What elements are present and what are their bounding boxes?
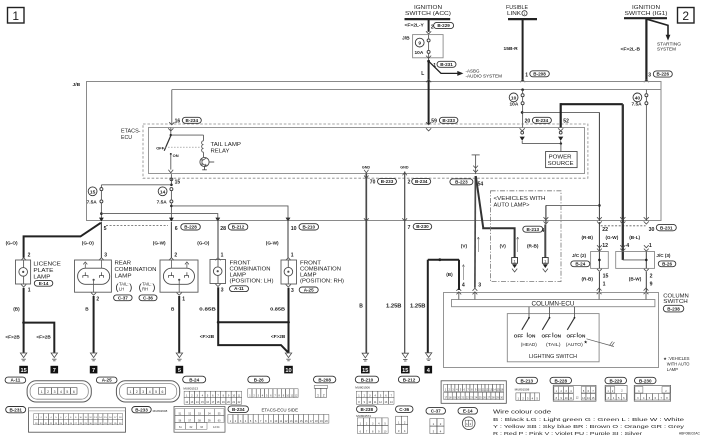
svg-text:3: 3 [142,390,144,394]
connector B-233 drawing [132,407,225,433]
svg-text:(B): (B) [446,272,453,277]
wire (V) to column switch pin 3 [474,176,477,288]
svg-text:(R-B): (R-B) [527,244,539,249]
inline connector terminal (V) [512,258,518,273]
svg-text:9: 9 [418,41,421,47]
wire <F>2L-B IG1 to J/B [645,18,647,81]
svg-text:B-238: B-238 [667,307,680,312]
junction connector J/C(3) B-26 [616,252,676,269]
connector B-229 drawing [605,377,627,401]
column switch box B-238 [444,293,690,368]
svg-text:LIGHTING SWITCH: LIGHTING SWITCH [529,354,577,360]
connector E-14 drawing [458,408,478,430]
connector C-37 drawing [426,408,446,434]
wire L from fuse 9 down into J/B [428,61,430,81]
svg-text:70: 70 [370,180,376,186]
junction block J/B outline [73,82,662,221]
connector B-234 drawing [228,406,329,423]
svg-text:Y : Yellow SB : Sky blue: Y : Yellow SB : Sky blue BR : Brown O : … [493,424,685,430]
svg-text:12 04: 12 04 [213,425,220,429]
svg-text:LAMP: LAMP [33,274,50,280]
svg-text:1: 1 [524,12,526,16]
pin 54 connector B-223 [450,179,483,188]
svg-text:TAIL LAMP: TAIL LAMP [211,142,242,148]
branch arrow to starting system [647,19,681,51]
svg-text:40: 40 [635,95,641,101]
svg-text:WITH AUTO: WITH AUTO [667,362,690,367]
fuse 14 7.5A [170,188,173,191]
svg-text:7.5A: 7.5A [87,200,98,206]
node: ACC fused output junction [427,60,430,63]
svg-text:7: 7 [408,225,411,231]
svg-text:J/C (2): J/C (2) [572,253,587,258]
node: fuse 10 output [521,105,524,128]
svg-text:30: 30 [649,227,655,233]
svg-text:C-36: C-36 [143,295,153,300]
svg-text:<VEHICLES WITH: <VEHICLES WITH [494,196,546,202]
svg-text:4: 4 [60,390,62,394]
svg-text:ECU: ECU [121,135,132,141]
svg-text:9: 9 [650,282,653,288]
svg-text:POWER: POWER [549,154,572,160]
svg-text:1: 1 [525,72,528,78]
svg-text:B-210: B-210 [361,377,374,382]
svg-text:7.5A: 7.5A [632,101,643,107]
svg-text:B-24: B-24 [575,261,585,266]
svg-text:15: 15 [362,368,368,374]
svg-text:7: 7 [92,368,95,374]
wire pin 22 to J/C(2) [582,217,609,251]
svg-text:(G-O): (G-O) [197,240,209,245]
svg-text:1: 1 [28,288,31,294]
wire 0.85B front RH ground [270,284,294,352]
tail lamp relay [156,134,203,173]
svg-text:LAMP: LAMP [115,274,132,280]
svg-text:3: 3 [104,252,107,258]
ground: ETACS body ground 15 [361,353,370,374]
fuse 10 10A [509,90,524,108]
sheet marker 2 [678,8,695,24]
svg-text:IGNITION: IGNITION [632,5,660,11]
svg-text:B-213: B-213 [520,378,533,383]
svg-text:A-11: A-11 [234,286,244,291]
wire (B) licence lamp ground [5,284,54,352]
svg-text:J/B: J/B [73,82,81,88]
svg-text:SYSTEM: SYSTEM [657,46,676,51]
svg-text:(G-W): (G-W) [266,240,279,245]
svg-text:ON: ON [578,333,586,338]
wire (G-W) to rear combination lamp RH [153,222,178,260]
svg-text:15: 15 [90,189,96,195]
J/B exit arrows lamps [99,218,290,222]
wire J/C(2) pin 15 to column switch pin 1 [582,269,609,294]
ETACS-ECU dashed outline [121,124,588,178]
svg-text:A-25: A-25 [304,287,314,292]
wire fuse10 output to auto-lamp branch [522,111,599,113]
svg-text:0.85B: 0.85B [270,306,286,312]
wire IG1 through J/B to pin 30 [645,105,647,221]
svg-text:MU801513: MU801513 [183,386,198,390]
wire 0.85B front LH ground [199,284,288,353]
connector B-228 drawing [550,377,596,401]
relay driver transistor [200,157,214,169]
svg-text:B-26: B-26 [662,261,672,266]
sheet marker 1 [8,8,25,24]
svg-text:1.25B: 1.25B [386,304,402,310]
ground 15 licence lamp [19,353,28,374]
junction connector J/C(2) B-24 [571,252,609,269]
svg-text:(G-O): (G-O) [82,240,94,245]
svg-text:22: 22 [602,227,608,233]
dashed option link 5-6 [106,224,168,226]
svg-text:B-234: B-234 [186,118,199,123]
svg-text:B-228: B-228 [554,378,567,383]
svg-text:10: 10 [511,95,517,101]
svg-text:B-229: B-229 [437,23,450,28]
svg-text:28: 28 [220,226,226,232]
svg-text:1: 1 [317,393,319,397]
wire (G-O) to rear combination lamp LH [82,222,107,260]
svg-text:6: 6 [73,390,75,394]
svg-text:15B-R: 15B-R [504,46,519,52]
svg-text:A-11: A-11 [11,378,21,383]
svg-text:ETACS-: ETACS- [121,129,141,135]
wire (G-W) power to J/C(3) pin 4 [606,104,630,251]
relay output node 15 [101,174,180,186]
svg-text:(POSITION: RH): (POSITION: RH) [300,278,344,284]
svg-text:3: 3 [478,283,481,289]
svg-text:12: 12 [602,243,608,249]
connector A-11 drawing [5,377,91,402]
svg-text:GND: GND [400,165,409,169]
svg-text:R : Red P : Pink V : Vio: R : Red P : Pink V : Violet PU : Purple … [493,431,643,435]
svg-text:B-230: B-230 [639,378,652,383]
lighting switch [507,307,614,362]
svg-text:0.85B: 0.85B [199,306,216,312]
svg-text:RH: RH [142,286,148,291]
svg-text:REAR: REAR [115,260,132,266]
svg-text:2: 2 [408,180,411,186]
svg-text:7: 7 [53,368,56,374]
svg-text:AUTO LAMP>: AUTO LAMP> [494,202,530,208]
power source feed thick wire 52 [558,103,623,144]
wire ACC switch to J/B connector [428,19,430,32]
svg-text:C-37: C-37 [118,295,128,300]
svg-text:A-25: A-25 [102,378,112,383]
connector B-210 drawing [355,376,394,404]
svg-text:7.5A: 7.5A [157,200,168,206]
svg-text:1: 1 [129,390,131,394]
svg-text:C-37: C-37 [431,409,441,414]
svg-text:2: 2 [28,252,31,258]
svg-text:(G-O): (G-O) [6,240,18,245]
ground 5 rear lamp RH [176,353,184,374]
wire (V) branch to inline connector B-213 pin 1 [476,176,519,258]
svg-text:SWITCH (ACC): SWITCH (ACC) [405,11,451,17]
svg-text:J/B: J/B [402,35,410,41]
ETACS output stub to pin 54 [472,155,480,174]
svg-text:4: 4 [149,390,151,394]
connector B-24 drawing [183,376,242,404]
wire J/C(3) pin 2 to column switch pin 9 [629,269,653,294]
svg-text:B-208: B-208 [318,377,331,382]
svg-text:(V): (V) [461,244,468,249]
svg-text:B-229: B-229 [609,378,622,383]
label rear combination lamp [114,260,157,300]
svg-text:MU801508: MU801508 [515,388,530,392]
connector B-26 drawing [248,376,298,397]
svg-text:1: 1 [649,243,652,249]
svg-text:B-26: B-26 [254,377,264,382]
connector B-230 drawing [634,377,671,401]
svg-text:(AUTO): (AUTO) [566,342,584,347]
svg-text:B-231: B-231 [660,225,673,230]
svg-text:HBF08E02AC: HBF08E02AC [679,432,701,435]
svg-text:(G-W): (G-W) [153,240,166,245]
connector B-212 drawing [398,376,506,403]
svg-text:B-234: B-234 [232,407,245,412]
svg-text:4: 4 [626,243,629,249]
svg-text:<F>2B: <F>2B [271,334,286,339]
svg-text:MU801506: MU801506 [355,386,370,390]
svg-text:B-226: B-226 [657,72,670,77]
svg-text:L: L [421,71,424,77]
ground: body ground 15 (second) [401,353,410,374]
svg-text:MU802608: MU802608 [153,409,168,413]
svg-text:15: 15 [603,274,609,280]
svg-text:10: 10 [291,226,297,232]
pin 20 connector B-234 into ETACS [520,117,552,143]
svg-text:B: B [359,304,363,310]
svg-text:54: 54 [478,181,484,187]
svg-text:B-210: B-210 [302,225,315,230]
connector B-208 drawing [314,376,336,397]
svg-text:6: 6 [162,390,164,394]
svg-text:1: 1 [221,252,224,258]
svg-text:B-24: B-24 [189,377,199,382]
svg-text:RELAY: RELAY [211,149,230,155]
connector A-25 drawing [96,377,179,402]
svg-text:2: 2 [323,393,325,397]
vehicles with auto lamp option box [491,191,561,282]
ETACS GND output 2 B-234 / 7 B-230 [386,165,432,353]
svg-text:59: 59 [431,119,437,125]
svg-text:3: 3 [648,73,651,79]
node: fuse 15 output [100,203,103,218]
svg-text:B-234: B-234 [415,179,428,184]
svg-text:2: 2 [96,297,99,303]
junction block (small) with fuse 9 [402,35,443,58]
svg-text:J/C (3): J/C (3) [656,253,671,258]
svg-text:1: 1 [12,9,19,23]
svg-text:3: 3 [54,390,56,394]
svg-text:2: 2 [47,390,49,394]
wire fuse14 to front lamp RH drop [171,206,288,218]
wire fuse15 to front lamp LH drop [101,214,217,218]
inline connector terminal (R-B) [542,258,548,273]
ignition switch (ACC) [405,5,452,19]
svg-text:B-238: B-238 [360,407,373,412]
svg-text:B-233: B-233 [135,407,148,412]
svg-text:15: 15 [175,179,181,185]
svg-text:LINK: LINK [507,11,521,17]
connector B-213 drawing [515,377,540,400]
svg-text:SOURCE: SOURCE [548,161,574,167]
svg-text:5: 5 [104,226,107,232]
svg-text:<F>2L-B: <F>2L-B [621,46,641,52]
svg-text:1: 1 [291,252,294,258]
svg-text:1: 1 [603,282,606,288]
svg-text:C-36: C-36 [399,407,409,412]
pin 6 connector B-228 [175,224,201,232]
pin 28 connector B-212 [220,224,248,232]
svg-text:E-14: E-14 [39,281,49,286]
svg-text:<F>2B: <F>2B [200,334,215,339]
svg-text:1: 1 [41,390,43,394]
dashed option link 22-30 [601,225,646,227]
svg-text:Wire colour code: Wire colour code [493,410,551,416]
power source block [546,152,578,168]
front combination lamp RH A-25 [281,260,344,293]
svg-text:(B): (B) [13,306,20,311]
svg-text:FUSIBLE: FUSIBLE [506,5,528,11]
J/B internal bus line [172,89,661,91]
svg-text:GND: GND [362,165,371,169]
svg-text:10: 10 [285,368,291,374]
svg-text:ETACS-ECU SIDE: ETACS-ECU SIDE [262,408,299,413]
svg-text:-AUDIO SYSTEM: -AUDIO SYSTEM [466,73,503,78]
svg-text:2: 2 [650,274,653,280]
ETACS-ECU inner box [149,128,585,174]
svg-text:4: 4 [462,283,465,289]
svg-text:B-212: B-212 [232,225,245,230]
svg-text:SWITCH (IG1): SWITCH (IG1) [625,11,668,17]
svg-text:(R-B): (R-B) [582,277,594,282]
svg-text:(HEAD): (HEAD) [521,342,538,347]
fusible link 1 [506,5,537,19]
svg-text:5: 5 [155,390,157,394]
svg-text:3: 3 [221,288,224,294]
arrow to ASBG / audio system [429,61,503,78]
note star vehicles with auto lamp [663,356,689,372]
wire (B-L) pin 30 to J/C(3) pin 1 [629,235,652,251]
svg-text:B-212: B-212 [403,377,416,382]
svg-text:B-231: B-231 [440,62,453,67]
svg-text:B-233: B-233 [442,118,455,123]
svg-text:52: 52 [563,119,569,125]
svg-text:20: 20 [525,119,531,125]
svg-text:2: 2 [174,252,177,258]
wire (G-W) to front combination lamp RH [266,218,294,260]
wire (G-O) to front combination lamp LH [197,218,223,260]
connector B-238 drawing [356,406,388,433]
svg-text:SWITCH: SWITCH [663,299,688,305]
front combination lamp LH A-11 [210,260,274,292]
svg-text:14: 14 [160,189,166,195]
pin 4 entry [456,283,465,300]
svg-text:4: 4 [542,228,545,234]
svg-text:B-213: B-213 [527,227,540,232]
node: fuse 14 output [170,203,173,218]
svg-text:15: 15 [20,368,26,374]
fuse 40 7.5A [632,90,648,108]
svg-text:B-231: B-231 [9,407,22,412]
fuse 15 7.5A [87,185,103,206]
svg-text:(B-L): (B-L) [629,235,640,240]
connector C-36 drawing [396,406,414,433]
svg-text:★ :VEHICLES: ★ :VEHICLES [663,356,689,361]
svg-text:B : Black LG : Light gree: B : Black LG : Light green G : Green L :… [493,417,685,423]
wire 59 B-233 ACC into ETACS [428,81,430,125]
wire B rear RH lamp ground [171,293,185,353]
ground 7 rear lamp LH [90,353,98,374]
svg-text:): ) [129,282,132,292]
svg-text:ON: ON [528,333,536,338]
svg-text:(V): (V) [500,244,507,249]
svg-text:COLUMN-ECU: COLUMN-ECU [532,301,575,307]
svg-text:<F>2B: <F>2B [36,335,51,340]
svg-text:): ) [152,282,155,292]
fuse 9 10A [415,35,432,60]
svg-text:6: 6 [175,226,178,232]
svg-text:B-223: B-223 [455,179,468,184]
svg-text:OFF: OFF [567,333,577,338]
svg-text:(B-W): (B-W) [629,277,642,282]
connector B-231 drawing [6,407,126,433]
svg-text:1.25B: 1.25B [410,304,426,310]
svg-text:1: 1 [182,297,185,303]
svg-text:IGNITION: IGNITION [414,5,442,11]
svg-text:(G-W): (G-W) [606,235,619,240]
svg-text:COMBINATION: COMBINATION [115,267,157,273]
svg-text:OFF: OFF [156,145,165,150]
rear combination lamp RH (tail) C-36 [160,260,198,292]
pin 1 and 9 entries [599,293,646,300]
svg-text:ON: ON [173,153,179,158]
svg-text:(TAIL): (TAIL) [546,342,561,347]
svg-text:16: 16 [175,119,181,125]
svg-text:2: 2 [136,390,138,394]
svg-text:LH: LH [119,286,124,291]
svg-text:MU804574: MU804574 [356,414,371,418]
wire (B) column pin 4 to ground 4 [410,258,465,352]
pin 10 connector B-210 [291,224,319,232]
wire bus to ETACS pin 16 [171,90,173,125]
svg-text:B-233: B-233 [381,179,394,184]
rear combination lamp LH (tail) C-37 [75,260,112,292]
svg-text:B-230: B-230 [416,224,429,229]
svg-text:OFF: OFF [514,333,524,338]
wire (R-B) to inline connector B-213 pin 4 [523,217,549,258]
wire entering ETACS (relay common) [170,128,172,135]
svg-text:B-234: B-234 [536,118,549,123]
svg-text:<F>2B: <F>2B [5,335,20,340]
svg-text:PLATE: PLATE [33,268,53,274]
svg-text:LICENCE: LICENCE [33,262,61,268]
node: fusible-link feed on bus [521,88,524,91]
ETACS GND output 70 B-233 [359,165,396,353]
svg-text:B-208: B-208 [533,71,546,76]
svg-text:3: 3 [291,288,294,294]
svg-text:<F>2L-Y: <F>2L-Y [405,22,425,28]
svg-text:10A: 10A [510,101,519,107]
svg-text:10A: 10A [415,50,424,56]
node: power source join [522,142,562,151]
svg-text:2: 2 [682,9,689,23]
wire (G-O) to licence plate lamp [6,223,101,260]
wire colour code legend [493,410,685,435]
ignition switch (IG1) [624,5,668,18]
